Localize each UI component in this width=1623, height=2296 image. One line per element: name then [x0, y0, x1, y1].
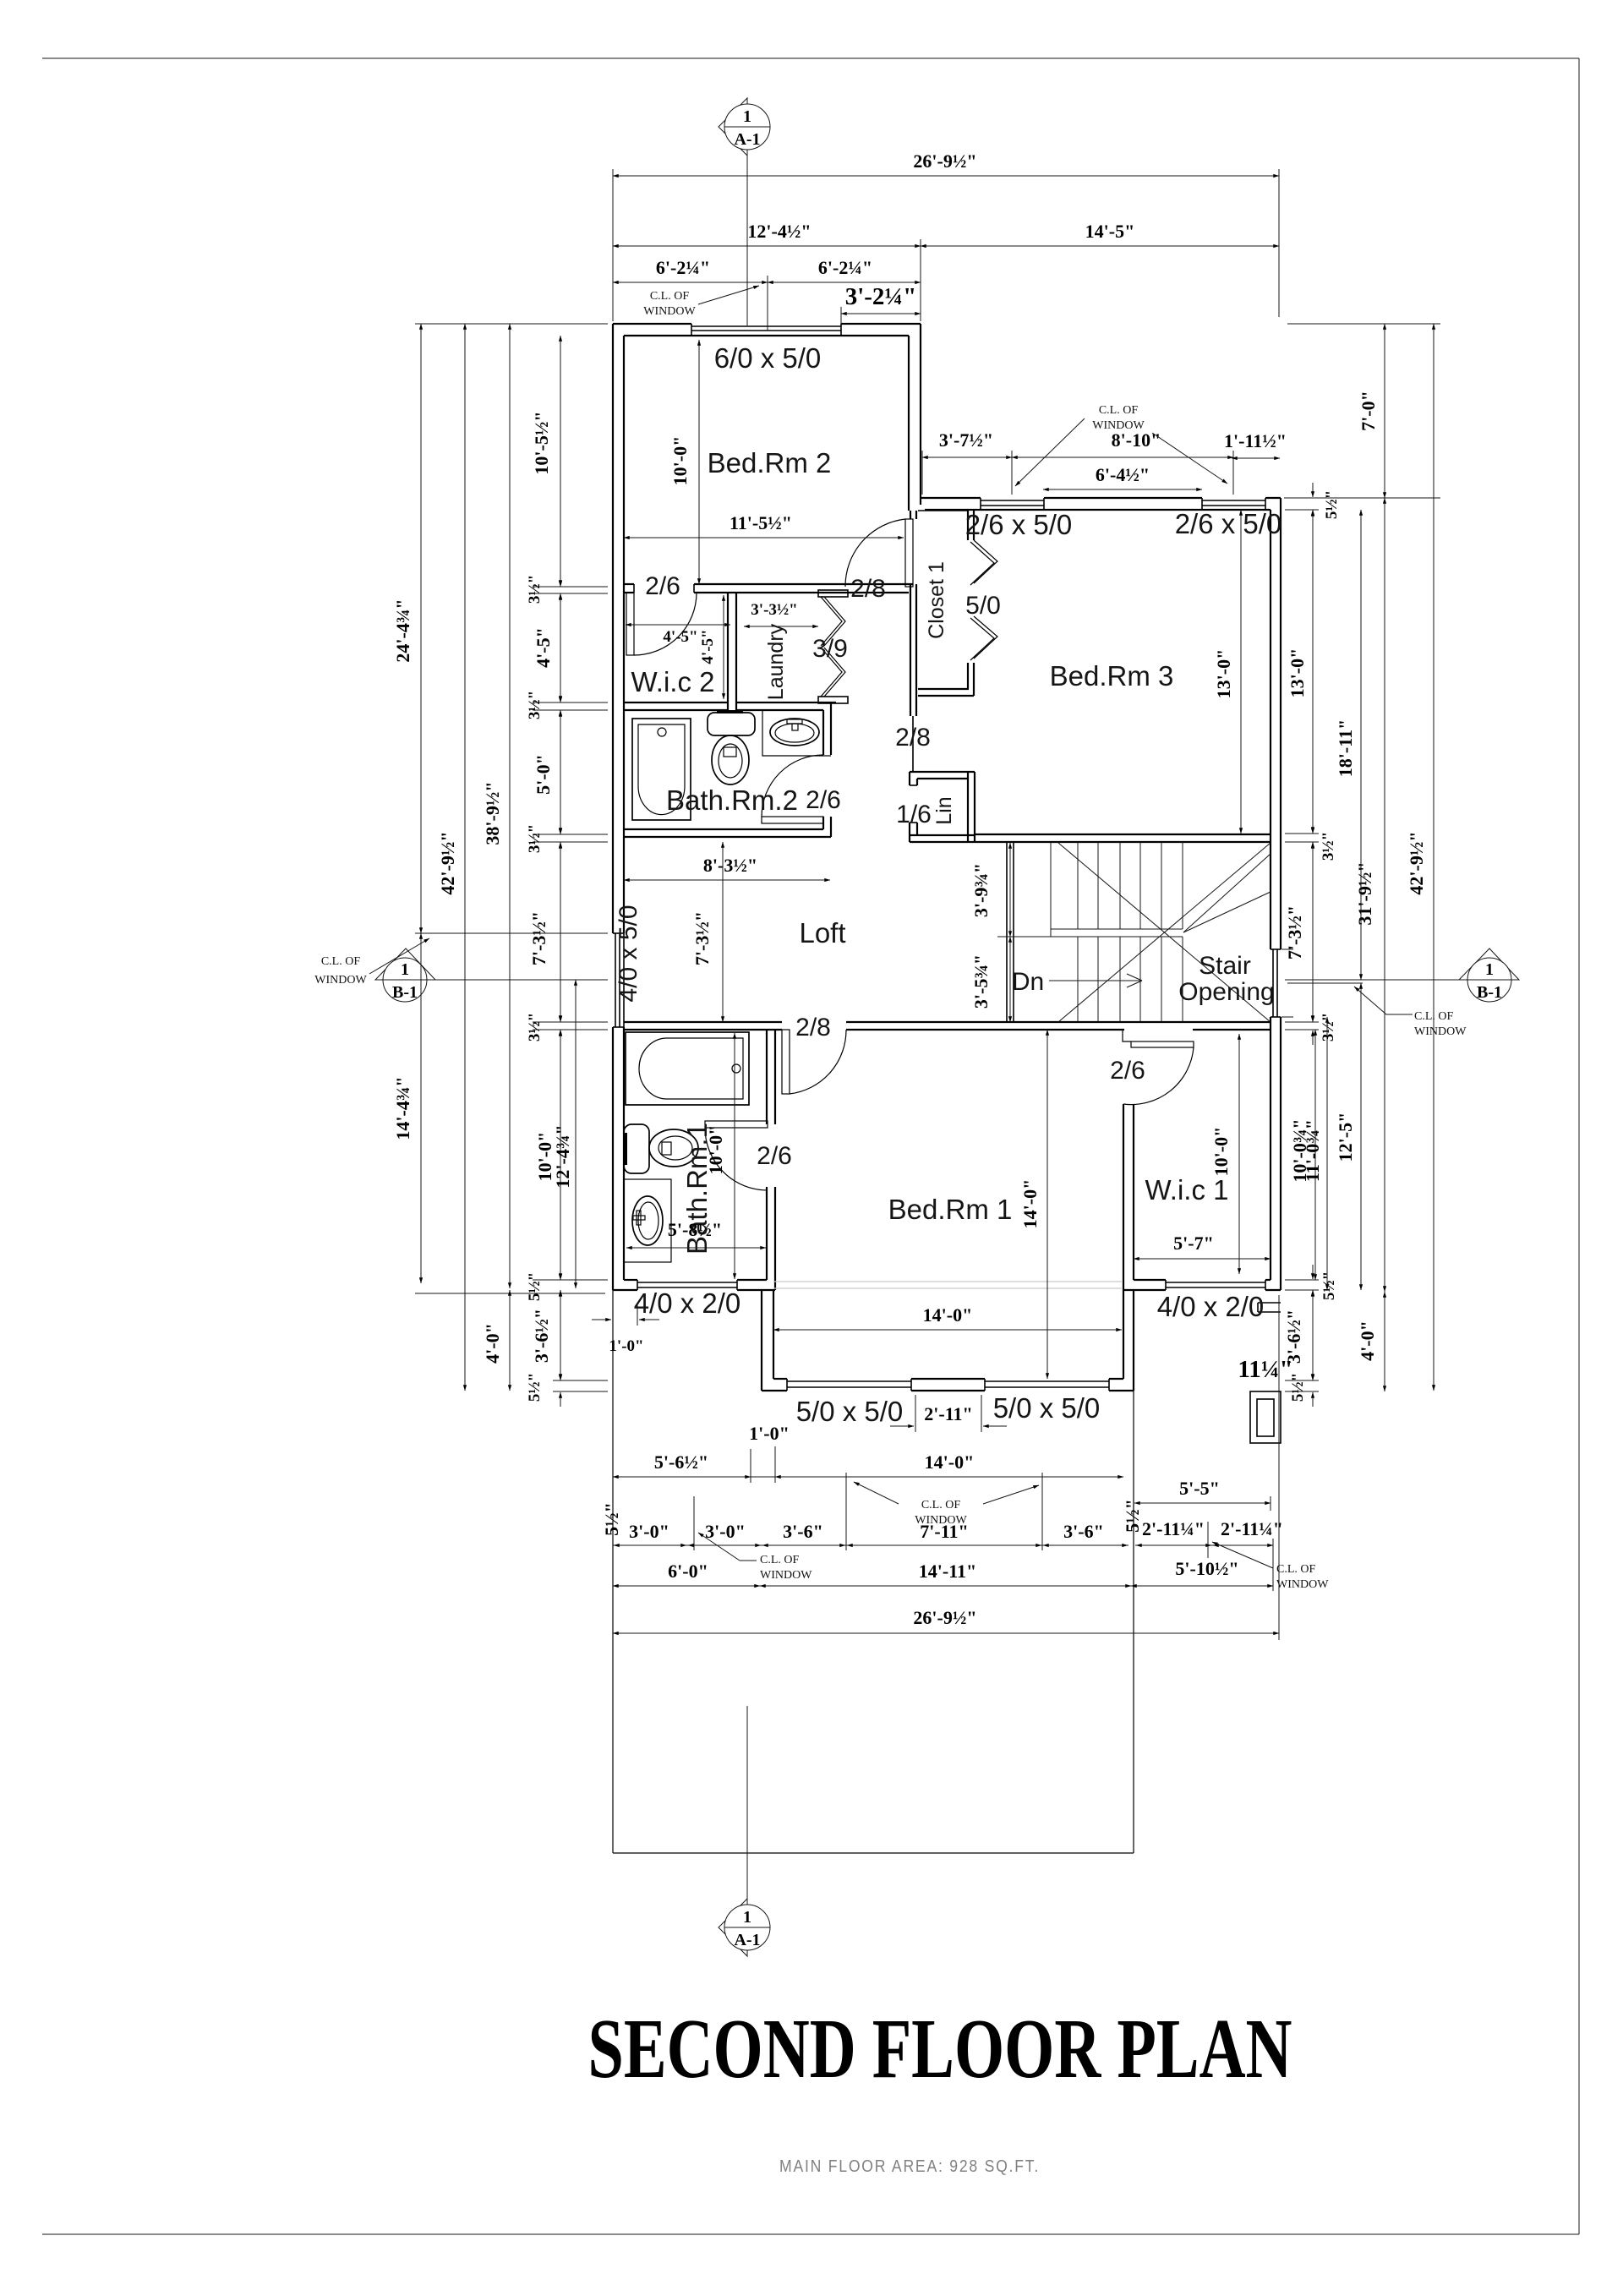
svg-text:C.L. OF: C.L. OF: [1276, 1563, 1316, 1576]
svg-text:8'-3½": 8'-3½": [703, 855, 757, 876]
svg-text:C.L. OF: C.L. OF: [321, 955, 361, 968]
svg-text:7'-0": 7'-0": [1358, 391, 1379, 431]
svg-text:2/6: 2/6: [645, 572, 680, 600]
svg-text:3½": 3½": [1320, 832, 1337, 861]
svg-text:SECOND FLOOR PLAN: SECOND FLOOR PLAN: [588, 2001, 1292, 2096]
svg-text:5½": 5½": [1122, 1499, 1143, 1533]
svg-text:12'-4½": 12'-4½": [747, 221, 811, 242]
svg-text:10'-0": 10'-0": [1210, 1127, 1232, 1177]
svg-text:11¼": 11¼": [1238, 1356, 1292, 1383]
svg-text:4/0 x 2/0: 4/0 x 2/0: [634, 1287, 741, 1319]
svg-text:18'-11": 18'-11": [1335, 719, 1356, 777]
svg-text:C.L. OF: C.L. OF: [650, 290, 690, 303]
svg-text:6/0 x 5/0: 6/0 x 5/0: [714, 342, 822, 374]
svg-text:3'-5¾": 3'-5¾": [970, 954, 992, 1009]
svg-text:A-1: A-1: [734, 130, 760, 149]
svg-text:W.i.c 2: W.i.c 2: [631, 666, 714, 697]
svg-text:Lin: Lin: [932, 796, 956, 824]
svg-text:Bed.Rm 3: Bed.Rm 3: [1050, 660, 1174, 692]
svg-text:WINDOW: WINDOW: [1414, 1025, 1467, 1038]
svg-text:5/0 x 5/0: 5/0 x 5/0: [993, 1392, 1101, 1424]
svg-text:10'-0": 10'-0": [669, 436, 691, 486]
svg-text:1: 1: [1485, 960, 1494, 979]
svg-text:5½": 5½": [1323, 490, 1341, 519]
svg-text:2/6: 2/6: [1110, 1057, 1145, 1085]
svg-text:3½": 3½": [526, 691, 544, 719]
svg-text:4'-0": 4'-0": [1357, 1320, 1378, 1361]
svg-text:Dn: Dn: [1012, 968, 1044, 996]
svg-text:3½": 3½": [1320, 1013, 1337, 1041]
svg-text:2/6 x 5/0: 2/6 x 5/0: [1175, 508, 1282, 539]
svg-text:3'-2¼": 3'-2¼": [845, 283, 917, 310]
svg-text:3'-6": 3'-6": [1063, 1521, 1104, 1542]
svg-text:4'-5": 4'-5": [533, 627, 554, 668]
svg-text:13'-0": 13'-0": [1287, 648, 1308, 698]
svg-text:C.L. OF: C.L. OF: [921, 1499, 961, 1512]
svg-text:1'-0": 1'-0": [609, 1337, 643, 1355]
svg-text:3'-0": 3'-0": [629, 1521, 669, 1542]
svg-text:5'-10½": 5'-10½": [1175, 1558, 1238, 1579]
svg-text:10'-5½": 10'-5½": [531, 411, 552, 474]
svg-text:Laundry: Laundry: [764, 623, 788, 700]
svg-text:W.i.c 1: W.i.c 1: [1145, 1174, 1228, 1205]
svg-text:1'-11½": 1'-11½": [1224, 430, 1287, 451]
svg-text:Bed.Rm 2: Bed.Rm 2: [708, 447, 832, 478]
svg-text:31'-9½": 31'-9½": [1354, 861, 1375, 925]
svg-text:13'-0": 13'-0": [1213, 649, 1234, 699]
svg-text:8'-10": 8'-10": [1112, 429, 1161, 451]
svg-text:4'-5": 4'-5": [663, 628, 697, 646]
svg-text:1: 1: [401, 960, 409, 979]
svg-text:24'-4¾": 24'-4¾": [392, 599, 413, 662]
svg-text:5/0 x 5/0: 5/0 x 5/0: [796, 1396, 904, 1427]
svg-text:Closet 1: Closet 1: [925, 561, 948, 639]
svg-text:14'-11": 14'-11": [919, 1561, 976, 1582]
svg-text:5'-5": 5'-5": [1179, 1478, 1220, 1499]
svg-text:5'-7": 5'-7": [1173, 1233, 1214, 1254]
svg-text:5½": 5½": [526, 1272, 544, 1301]
svg-text:Stair: Stair: [1199, 952, 1251, 980]
svg-text:7'-3½": 7'-3½": [1284, 905, 1305, 959]
svg-text:WINDOW: WINDOW: [1092, 419, 1145, 432]
svg-text:7'-3½": 7'-3½": [528, 911, 549, 965]
svg-text:5'-6½": 5'-6½": [654, 1451, 708, 1473]
svg-text:2/8: 2/8: [795, 1014, 831, 1041]
svg-text:11'-5½": 11'-5½": [730, 512, 792, 533]
svg-text:6'-2¼": 6'-2¼": [656, 257, 710, 278]
svg-text:4'-0": 4'-0": [482, 1323, 503, 1364]
svg-text:6'-4½": 6'-4½": [1096, 464, 1150, 485]
svg-text:Loft: Loft: [799, 917, 845, 948]
svg-text:5'-8½": 5'-8½": [668, 1219, 722, 1240]
svg-text:Bath.Rm.2: Bath.Rm.2: [666, 784, 798, 816]
svg-text:14'-5": 14'-5": [1085, 221, 1135, 242]
svg-text:C.L. OF: C.L. OF: [760, 1554, 800, 1566]
svg-text:WINDOW: WINDOW: [1276, 1578, 1329, 1591]
svg-text:3½": 3½": [526, 1013, 544, 1041]
svg-text:26'-9½": 26'-9½": [913, 150, 976, 172]
svg-text:3/9: 3/9: [812, 635, 848, 663]
svg-text:1: 1: [743, 107, 751, 126]
svg-text:2'-11": 2'-11": [924, 1403, 972, 1424]
svg-text:4'-5": 4'-5": [699, 629, 717, 664]
svg-text:10'-0": 10'-0": [705, 1125, 726, 1175]
svg-text:14'-0": 14'-0": [923, 1304, 973, 1326]
svg-text:14'-4¾": 14'-4¾": [392, 1076, 413, 1140]
svg-text:5½": 5½": [601, 1502, 622, 1536]
svg-text:3'-0": 3'-0": [705, 1521, 746, 1542]
svg-text:42'-9½": 42'-9½": [1406, 831, 1427, 894]
svg-text:3'-6": 3'-6": [783, 1521, 823, 1542]
svg-text:2/6: 2/6: [757, 1142, 792, 1170]
svg-text:12'-5": 12'-5": [1335, 1112, 1356, 1162]
svg-text:2'-11¼": 2'-11¼": [1142, 1518, 1205, 1539]
svg-text:MAIN FLOOR AREA: 928 SQ.FT.: MAIN FLOOR AREA: 928 SQ.FT.: [779, 2157, 1040, 2176]
svg-text:14'-0": 14'-0": [1019, 1179, 1041, 1229]
svg-text:WINDOW: WINDOW: [915, 1514, 967, 1527]
svg-text:11'-0¾": 11'-0¾": [1302, 1119, 1323, 1182]
svg-text:A-1: A-1: [734, 1931, 760, 1949]
svg-text:3'-3½": 3'-3½": [751, 601, 797, 619]
svg-text:12'-4¾": 12'-4¾": [552, 1124, 573, 1188]
svg-text:5/0: 5/0: [965, 592, 1001, 620]
svg-text:2'-11¼": 2'-11¼": [1221, 1518, 1283, 1539]
svg-text:Opening: Opening: [1178, 978, 1274, 1006]
svg-text:5½": 5½": [1320, 1271, 1338, 1300]
svg-text:3'-6½": 3'-6½": [531, 1309, 552, 1363]
svg-text:14'-0": 14'-0": [925, 1451, 975, 1473]
svg-text:C.L. OF: C.L. OF: [1099, 404, 1139, 417]
svg-text:7'-3½": 7'-3½": [691, 911, 713, 965]
svg-text:WINDOW: WINDOW: [314, 974, 367, 987]
svg-text:5½": 5½": [526, 1373, 544, 1402]
svg-text:WINDOW: WINDOW: [643, 305, 696, 318]
svg-text:3'-7½": 3'-7½": [939, 429, 993, 451]
svg-text:42'-9½": 42'-9½": [437, 831, 458, 894]
svg-text:1: 1: [743, 1908, 751, 1927]
svg-text:B-1: B-1: [392, 983, 418, 1002]
svg-text:1/6: 1/6: [896, 801, 932, 828]
svg-text:C.L. OF: C.L. OF: [1414, 1010, 1454, 1023]
svg-text:6'-2¼": 6'-2¼": [818, 257, 872, 278]
svg-text:5'-0": 5'-0": [533, 754, 554, 795]
svg-text:Bed.Rm 1: Bed.Rm 1: [888, 1194, 1013, 1225]
svg-text:2/6 x 5/0: 2/6 x 5/0: [965, 509, 1073, 540]
svg-text:WINDOW: WINDOW: [760, 1569, 812, 1582]
svg-text:2/6: 2/6: [806, 786, 841, 814]
svg-text:26'-9½": 26'-9½": [913, 1607, 976, 1628]
svg-text:1'-0": 1'-0": [749, 1423, 790, 1444]
svg-text:2/8: 2/8: [850, 575, 886, 603]
svg-text:3½": 3½": [526, 575, 544, 604]
svg-text:38'-9½": 38'-9½": [482, 781, 503, 845]
svg-text:4/0 x 2/0: 4/0 x 2/0: [1157, 1291, 1265, 1322]
svg-text:3½": 3½": [526, 824, 544, 853]
svg-text:4/0 x 5/0: 4/0 x 5/0: [615, 905, 642, 1002]
svg-text:B-1: B-1: [1477, 983, 1502, 1002]
svg-text:2/8: 2/8: [895, 724, 931, 752]
svg-text:3'-9¾": 3'-9¾": [970, 863, 992, 917]
svg-text:6'-0": 6'-0": [668, 1561, 708, 1582]
